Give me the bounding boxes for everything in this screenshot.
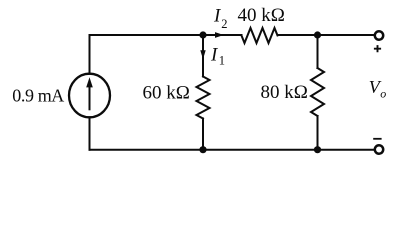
wire R 80k to bottom rail <box>317 116 319 150</box>
current arrow I1 <box>200 40 205 59</box>
current arrow I2 <box>207 32 224 38</box>
wire bottom rail <box>90 149 375 151</box>
label 60 kOhm <box>143 83 190 104</box>
resistor 80 kOhm (vertical) <box>311 68 324 116</box>
wire left rail (top) <box>89 35 91 74</box>
junction dot node b (top of 80k) <box>314 31 321 38</box>
label 0.9 mA <box>12 85 64 105</box>
minus sign <box>373 138 381 140</box>
wire left rail (bottom) <box>89 117 91 149</box>
current source arrow <box>86 77 93 110</box>
resistor 60 kOhm (vertical) <box>197 77 210 119</box>
svg-text:80 kΩ: 80 kΩ <box>261 82 308 103</box>
svg-text:0.9 mA: 0.9 mA <box>12 85 64 105</box>
wire middle branch (node a to R 60k) <box>202 35 204 77</box>
junction dot bottom of 60k <box>199 146 206 153</box>
label Vo <box>369 77 387 100</box>
svg-text:o: o <box>380 86 386 100</box>
label I1 <box>210 44 225 67</box>
current source circle 0.9 mA <box>69 74 110 118</box>
svg-text:2: 2 <box>221 17 227 31</box>
wire right branch (node b to R 80k) <box>317 35 319 68</box>
junction dot bottom of 80k <box>314 146 321 153</box>
label 80 kOhm <box>261 82 308 103</box>
plus sign <box>374 45 381 52</box>
svg-text:40 kΩ: 40 kΩ <box>238 5 285 26</box>
wire R 60k to bottom rail <box>202 119 204 150</box>
wire top rail <box>90 34 375 36</box>
output terminal + (open circle) <box>375 31 383 39</box>
svg-text:1: 1 <box>219 54 225 68</box>
svg-text:60 kΩ: 60 kΩ <box>143 83 190 104</box>
label 40 kOhm <box>238 5 285 26</box>
svg-text:I: I <box>210 44 219 65</box>
label I2 <box>213 5 228 31</box>
output terminal - (open circle) <box>375 145 383 153</box>
resistor 40 kOhm (horizontal) <box>242 28 278 43</box>
junction dot node a (top of 60k) <box>199 31 206 38</box>
